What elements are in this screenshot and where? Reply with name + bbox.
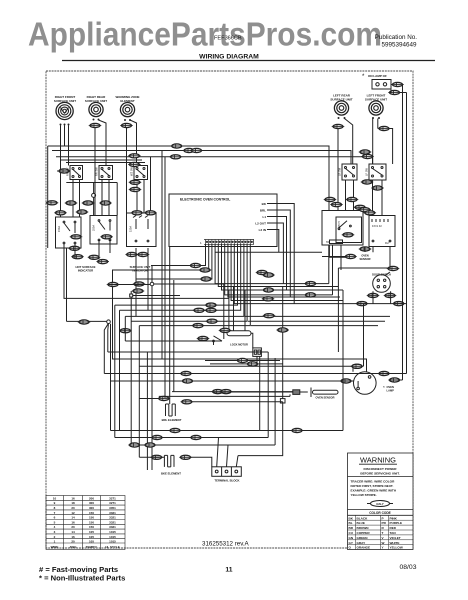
wire gauge table — [46, 496, 125, 550]
svg-text:WIRE: WIRE — [51, 545, 59, 549]
label left rear surface unit — [330, 94, 352, 102]
connectors above latch assembly — [359, 150, 372, 154]
connector on junction 2 line — [78, 320, 91, 324]
wire lock motor box down — [257, 356, 260, 430]
wire segment x150 to module 3 — [150, 157, 152, 213]
svg-text:ELEMENT: ELEMENT — [120, 99, 135, 103]
EOC pin drop 6 — [222, 244, 344, 290]
svg-text:3271: 3271 — [109, 501, 116, 505]
label warming zone — [116, 95, 140, 103]
vertical bundle lower left — [115, 305, 148, 470]
connector left of RF switch — [58, 169, 71, 173]
EOC pin drop 5 — [218, 244, 338, 286]
svg-text:16: 16 — [71, 535, 75, 539]
svg-text:PURPLE: PURPLE — [390, 521, 403, 525]
wire: top trunk line 2 — [52, 151, 351, 165]
oven relay board box — [369, 216, 395, 247]
svg-text:LAMP: LAMP — [387, 388, 395, 392]
diagonal feeds to terminal block — [268, 352, 275, 445]
svg-text:BK: BK — [349, 516, 354, 520]
junction node circle — [92, 193, 96, 197]
junction circle mesh — [150, 282, 154, 286]
svg-text:5995394649: 5995394649 — [381, 42, 417, 49]
wire: top trunk line 3 — [56, 157, 373, 164]
svg-text:AWG: AWG — [69, 545, 77, 549]
svg-text:16: 16 — [71, 520, 75, 524]
svg-text:BRL: BRL — [260, 209, 266, 213]
svg-text:*: * — [383, 385, 385, 390]
connector left of bake element — [150, 455, 163, 459]
svg-text:PR: PR — [382, 521, 387, 525]
surface switch LF — [369, 164, 386, 180]
svg-text:150A: 150A — [129, 226, 133, 232]
connector left of broil element — [158, 396, 171, 400]
connector right of broil element — [181, 400, 194, 404]
svg-text:ON LAMP OF: ON LAMP OF — [368, 74, 387, 78]
svg-text:SENSOR: SENSOR — [360, 257, 371, 261]
wire stubs lock area — [205, 361, 283, 364]
svg-text:18: 18 — [71, 501, 75, 505]
connector below right rear unit — [89, 123, 102, 127]
label left front surface unit — [365, 94, 387, 102]
svg-text:3051: 3051 — [109, 506, 116, 510]
svg-text:105: 105 — [89, 535, 94, 539]
svg-text:08/03: 08/03 — [399, 564, 416, 571]
svg-text:SURFACE UNIT: SURFACE UNIT — [85, 99, 107, 103]
wire trunk 5 to latch top — [66, 162, 145, 164]
svg-text:20: 20 — [71, 539, 75, 543]
label right front surface unit — [54, 95, 76, 103]
oven light switch rotary — [372, 273, 391, 293]
wire: left front unit leads — [373, 119, 393, 165]
EOC pin header comb — [200, 240, 254, 246]
terminal block lead wires — [217, 438, 238, 467]
svg-text:Publication No.: Publication No. — [375, 34, 418, 41]
connectors below modules 1-2 — [68, 246, 81, 250]
wire EOC L2 IN to right trunk — [267, 230, 279, 253]
wire x282.7 upper — [282, 287, 284, 358]
connector row B — [54, 211, 67, 215]
svg-text:YELLOW STRIPE.: YELLOW STRIPE. — [351, 493, 377, 497]
svg-text:GN-Y: GN-Y — [376, 502, 384, 506]
wire oven light switch verticals — [364, 291, 391, 366]
connector on x282.7 — [276, 328, 289, 332]
wire EOC BK to right trunk — [267, 204, 294, 304]
svg-text:ELECTRONIC OVEN CONTROL: ELECTRONIC OVEN CONTROL — [180, 198, 230, 202]
svg-text:3321: 3321 — [109, 520, 116, 524]
label right rear surface unit — [85, 95, 107, 103]
connectors below module 3 — [125, 252, 138, 256]
connector top of latch cluster — [354, 205, 367, 209]
connectors below LR switch — [361, 180, 374, 184]
svg-text:GREEN: GREEN — [357, 536, 369, 540]
label hot surface indicator — [75, 265, 95, 273]
connector below warming zone — [120, 123, 133, 127]
svg-text:RED: RED — [390, 526, 397, 530]
wire on-lamp to right trunk — [389, 85, 407, 93]
wire border to junction 2 — [64, 244, 229, 431]
wire on-lamp feeds down right side — [403, 85, 407, 381]
wire y391.6 run to sensor — [172, 391, 293, 393]
wire: left rear unit leads — [338, 119, 353, 211]
EOC pin drop 11 — [115, 244, 238, 305]
wire from square node — [131, 291, 180, 445]
connectors lower mesh — [169, 428, 182, 432]
warming zone element: coil symbol — [120, 103, 134, 117]
connectors on latch mesh wires — [304, 282, 317, 286]
connector on trunk 2 — [183, 148, 196, 152]
connector right of bake element — [179, 455, 192, 459]
wires junction 2 down — [104, 323, 108, 373]
svg-text:14: 14 — [71, 530, 75, 534]
connectors below WZ switch — [129, 180, 142, 184]
svg-text:BRL ELEMENT: BRL ELEMENT — [162, 418, 182, 422]
connector inside warm zone module — [100, 235, 113, 239]
svg-text:1015: 1015 — [109, 539, 116, 543]
wire y252.3 run to latch — [215, 251, 322, 253]
svg-text:3321: 3321 — [109, 511, 116, 515]
connector row A — [46, 201, 59, 205]
electronic oven control board — [169, 194, 277, 247]
wires above latch/relay from LR LF switches — [346, 180, 383, 216]
label surface unit indicator — [130, 265, 151, 273]
connector below left front unit — [378, 126, 391, 130]
connector on lock switch line — [197, 336, 210, 340]
warm zone indicator module — [90, 216, 117, 245]
junction circle 2 — [107, 320, 111, 324]
oven temperature sensor probe — [293, 388, 338, 400]
svg-text:L2 OUT: L2 OUT — [255, 222, 266, 226]
svg-text:20: 20 — [71, 525, 75, 529]
wires from switch rows down to modules — [73, 180, 144, 218]
color code table — [348, 515, 414, 549]
svg-text:VIOLET: VIOLET — [390, 536, 401, 540]
surface unit RIGHT FRONT: coil symbol — [56, 102, 73, 119]
svg-text:INDICATOR: INDICATOR — [78, 269, 93, 273]
oven ON lamp indicator — [362, 74, 391, 89]
svg-text:1015: 1015 — [109, 530, 116, 534]
connector on y366.3 — [351, 364, 364, 368]
svg-text:BROWN: BROWN — [357, 526, 370, 530]
svg-text:105: 105 — [89, 539, 94, 543]
oven lamp — [354, 372, 395, 395]
surface unit LEFT FRONT: coil symbol — [369, 101, 383, 115]
svg-text:F3 F1 F2: F3 F1 F2 — [372, 225, 382, 228]
connector left of oven sensor label — [344, 254, 357, 258]
wire RF switch stub — [57, 170, 70, 172]
svg-text:316255312 rev.A: 316255312 rev.A — [202, 541, 250, 548]
wire EOC L1 to right trunk — [267, 217, 287, 291]
surface switch LR — [342, 164, 357, 180]
EOC pin drop 7 — [225, 244, 333, 295]
svg-text:3321: 3321 — [109, 525, 116, 529]
svg-text:BR: BR — [349, 526, 354, 530]
svg-text:12: 12 — [71, 511, 75, 515]
svg-text:SURFACE UNIT: SURFACE UNIT — [54, 99, 76, 103]
svg-text:10: 10 — [53, 496, 57, 500]
wire y182.5 cross run — [66, 183, 117, 216]
svg-text:YELLOW: YELLOW — [390, 546, 403, 550]
surface unit LEFT REAR: coil symbol — [334, 101, 348, 115]
main diagram border — [46, 71, 413, 548]
surface unit RIGHT REAR: coil symbol — [89, 102, 103, 116]
svg-text:EXAMPLE: GREEN WIRE WITH: EXAMPLE: GREEN WIRE WITH — [351, 489, 397, 493]
svg-text:LF SW: LF SW — [365, 168, 369, 176]
wire: left trunk vertical — [47, 146, 49, 248]
EOC pin drop 8 — [228, 244, 340, 297]
title underline — [62, 60, 435, 62]
svg-text:LOCK MOTOR: LOCK MOTOR — [230, 343, 248, 347]
wire latch box bottom stub — [322, 245, 346, 270]
wire: top trunk line 4 — [61, 159, 143, 161]
svg-text:FEF366CB: FEF366CB — [214, 36, 242, 42]
svg-text:20: 20 — [71, 506, 75, 510]
junction stubs — [93, 183, 95, 216]
EOC pin drop 3 — [136, 244, 212, 279]
warning box — [348, 453, 414, 550]
svg-text:14: 14 — [71, 516, 75, 520]
wire y374.5 long run — [104, 373, 406, 375]
svg-text:LATCH: LATCH — [338, 221, 341, 229]
svg-text:BKE ELEMENT: BKE ELEMENT — [161, 472, 181, 476]
label oven sensor plug — [360, 254, 371, 261]
wires from latch bottom into mesh — [329, 245, 389, 352]
connector below latch boxes — [359, 247, 372, 251]
EOC pin drop 15 — [139, 244, 378, 325]
svg-text:BLUE: BLUE — [357, 521, 365, 525]
svg-text:GRAY: GRAY — [357, 541, 367, 545]
svg-text:P: P — [382, 516, 384, 520]
EOC pin drop 1 — [151, 244, 206, 265]
svg-text:WIRING DIAGRAM: WIRING DIAGRAM — [199, 54, 259, 61]
surface switch RF — [70, 166, 83, 180]
connectors on lower runs — [180, 371, 193, 375]
svg-text:OVEN SENSOR: OVEN SENSOR — [315, 395, 334, 399]
svg-text:PINK: PINK — [390, 516, 398, 520]
wires to lock motor area — [214, 284, 253, 348]
svg-text:BLACK: BLACK — [357, 516, 369, 520]
connector right of on-lamp — [391, 82, 404, 86]
bake element — [161, 455, 181, 475]
warming zone switch — [134, 166, 148, 180]
svg-text:WHITE: WHITE — [390, 541, 400, 545]
svg-text:RLY: RLY — [385, 242, 390, 245]
svg-text:L2 IN: L2 IN — [259, 228, 266, 232]
connectors on EOC drop lines — [189, 263, 202, 267]
connector inside hot surface module — [70, 235, 83, 239]
junction square node — [130, 294, 133, 297]
terminals below burners — [60, 117, 381, 126]
svg-text:300: 300 — [89, 501, 94, 505]
surface switch RR — [99, 166, 113, 180]
double line break module — [127, 213, 157, 247]
svg-text:BL: BL — [349, 521, 353, 525]
hot surface indicator module — [56, 217, 82, 248]
svg-text:150: 150 — [89, 525, 94, 529]
wire junction y284 — [108, 266, 224, 471]
connectors around oven light switch — [367, 293, 380, 297]
wire: warming zone leads — [127, 120, 137, 213]
wire broil element connections — [139, 399, 282, 404]
svg-text:ORANGE: ORANGE — [357, 546, 371, 550]
svg-text:L1: L1 — [262, 215, 266, 219]
svg-text:UL STYLE: UL STYLE — [105, 545, 119, 549]
svg-text:DISCONNECT POWER: DISCONNECT POWER — [363, 467, 397, 471]
connectors above warming zone switch bend — [128, 154, 141, 158]
svg-text:250A: 250A — [92, 225, 96, 231]
connector pair on y391.6 — [211, 390, 224, 394]
door lock motor — [213, 331, 262, 357]
EOC pin drop 4 — [215, 244, 329, 283]
svg-text:TEMP°C: TEMP°C — [86, 545, 99, 549]
svg-text:150A: 150A — [57, 226, 61, 232]
svg-text:SURFACE UNIT: SURFACE UNIT — [330, 97, 352, 101]
svg-text:TAN: TAN — [390, 531, 397, 535]
svg-text:CU: CU — [349, 531, 354, 535]
wire x124.5 down — [125, 316, 213, 341]
wire y396.4 short run — [159, 394, 290, 396]
connector on y432 extension — [291, 428, 304, 432]
lower horizontal runs — [111, 431, 276, 446]
EOC pin drop 12 — [120, 244, 241, 310]
svg-text:WARNING: WARNING — [360, 456, 396, 465]
svg-text:105: 105 — [89, 530, 94, 534]
svg-text:300: 300 — [89, 506, 94, 510]
wire y396.4 extension — [230, 395, 290, 397]
svg-text:BEFORE SERVICING UNIT.: BEFORE SERVICING UNIT. — [360, 471, 399, 475]
connector on trunk 4 — [169, 155, 182, 159]
wire y432 extension right — [260, 290, 343, 431]
svg-text:W: W — [382, 541, 385, 545]
EOC pin drop 10 — [234, 244, 406, 303]
svg-text:TERMINAL BLOCK: TERMINAL BLOCK — [214, 479, 239, 483]
oven door latch assembly box — [322, 211, 363, 246]
connectors around oven lamp — [340, 379, 353, 383]
svg-text:3271: 3271 — [109, 496, 116, 500]
svg-text:150: 150 — [89, 516, 94, 520]
svg-text:1015: 1015 — [109, 535, 116, 539]
connectors near lock motor right — [236, 358, 249, 362]
wire y352 run — [108, 351, 268, 353]
wire y366.3 run — [139, 366, 353, 371]
terminal block — [212, 467, 242, 483]
EOC pin drop 2 — [113, 244, 367, 371]
wire x282.7 vertical — [238, 357, 283, 456]
EOC pin drop 13 — [125, 244, 390, 316]
connector on trunk 1 — [170, 144, 183, 148]
svg-text:16: 16 — [71, 496, 75, 500]
wire: top trunk line 1 — [48, 146, 329, 211]
svg-text:NOTED FIRST, STRIPE NEXT.: NOTED FIRST, STRIPE NEXT. — [351, 484, 394, 488]
connector inside latch box — [342, 233, 355, 237]
wire oven lamp to right verticals — [351, 247, 407, 382]
svg-text:COLOR CODE: COLOR CODE — [369, 511, 391, 515]
svg-text:SURFACE UNIT: SURFACE UNIT — [365, 97, 387, 101]
svg-text:T: T — [382, 531, 384, 535]
EOC pin drop 9 — [231, 244, 343, 300]
wire y381 run to oven lamp — [110, 380, 353, 382]
connector below junction 2 — [119, 329, 132, 333]
svg-text:150: 150 — [89, 520, 94, 524]
svg-text:WZ SW: WZ SW — [130, 167, 134, 176]
svg-text:150: 150 — [89, 511, 94, 515]
svg-text:COPPER: COPPER — [357, 531, 371, 535]
wire EOC BRL to right trunk — [267, 210, 290, 297]
wire: right rear unit leads — [95, 120, 106, 216]
connector below-right of on-lamp — [388, 90, 401, 94]
svg-text:TRACER WIRE: WIRE COLOR: TRACER WIRE: WIRE COLOR — [351, 480, 396, 484]
junction node square — [280, 399, 285, 403]
wire sensor lead left — [212, 391, 293, 393]
svg-text:200: 200 — [89, 496, 94, 500]
EOC left side drops — [162, 151, 174, 405]
wire bake element connections — [139, 457, 212, 467]
broil element — [162, 404, 182, 422]
svg-text:3321: 3321 — [109, 516, 116, 520]
svg-text:11: 11 — [225, 567, 232, 574]
EOC pin drop 14 — [131, 244, 385, 321]
wire: right front unit leads down — [61, 126, 69, 218]
connector mid-left mesh — [107, 282, 120, 286]
wire EOC L2 OUT to right trunk — [267, 223, 283, 284]
svg-text:* = Non-Illustrated Parts: * = Non-Illustrated Parts — [39, 574, 125, 583]
svg-text:AppliancePartsPros.com: AppliancePartsPros.com — [28, 16, 382, 53]
svg-text:GN: GN — [349, 536, 354, 540]
wires module bottoms down — [75, 240, 148, 316]
connector below left rear unit — [332, 124, 345, 128]
wires lock motor up to mesh — [234, 287, 246, 331]
